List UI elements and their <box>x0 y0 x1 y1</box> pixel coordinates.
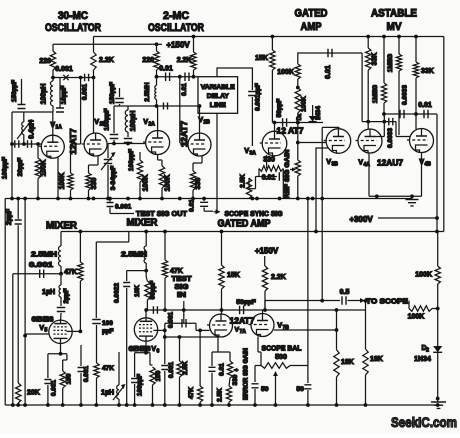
svg-text:100µµF: 100µµF <box>2 157 9 179</box>
svg-text:100µH: 100µH <box>41 84 48 105</box>
capacitor 50 (left) <box>252 384 259 388</box>
capacitor 100µµF (tank) <box>15 140 19 148</box>
pot SCOPE BAL <box>260 352 262 366</box>
trimmer capacitor 3-34µµF <box>107 144 109 159</box>
resistor 20K <box>16 383 21 403</box>
svg-text:15K: 15K <box>255 55 268 62</box>
wire +150V top bus <box>94 36 444 38</box>
svg-text:1µH: 1µH <box>42 289 55 296</box>
resistor 1MEG (grid V4A) <box>397 35 401 39</box>
resistor 2.5K (V7A cathode ret) <box>179 337 181 361</box>
wire V2A grid line <box>108 143 146 145</box>
svg-text:2.5K: 2.5K <box>182 361 189 375</box>
tube V1B <box>84 133 107 156</box>
capacitor 2µµF (left rail) <box>17 199 19 219</box>
capacitor 0.001 (V5 cathode) <box>47 354 49 378</box>
capacitor 10µµF <box>59 78 61 109</box>
svg-text:REF SIG GAIN: REF SIG GAIN <box>284 149 291 198</box>
wire V6 plate <box>145 310 147 318</box>
wire MV trigger feed <box>361 53 363 122</box>
tube V3B <box>326 129 351 154</box>
wire oscillator bottom line <box>5 198 412 200</box>
capacitor 0.001µµF <box>248 92 257 96</box>
wire V6-V7A coupling riser <box>164 323 166 330</box>
wire V3B plate to scope pick <box>338 126 340 129</box>
wire V1A plate <box>52 112 54 135</box>
svg-text:IN34: IN34 <box>315 106 322 120</box>
inductor 2.5MH (mixer1) <box>60 232 62 247</box>
svg-text:30-MC: 30-MC <box>58 10 88 22</box>
svg-text:100µµF: 100µµF <box>128 149 135 171</box>
pot wiper scope bal drop <box>275 380 277 405</box>
capacitor 0.01 (to V3B) <box>328 49 332 58</box>
svg-text:50: 50 <box>261 386 269 393</box>
node +150V tap <box>155 42 159 46</box>
svg-text:GATED: GATED <box>295 8 328 20</box>
svg-text:330: 330 <box>263 157 275 164</box>
capacitor 0.01 (scope sync) <box>202 197 206 201</box>
wire test sig in drop <box>183 301 185 323</box>
svg-text:50µµF: 50µµF <box>276 99 283 118</box>
svg-text:3-34µµF: 3-34µµF <box>110 166 117 190</box>
svg-text:OSCILLATOR: OSCILLATOR <box>148 22 204 34</box>
svg-text:0.01: 0.01 <box>418 102 432 109</box>
resistor 1MEG (grid V4B) <box>382 35 386 39</box>
wire V7B plate lead <box>262 310 264 314</box>
wire 2-MC feedback row <box>157 76 199 78</box>
resistor 15K (V7A plate) <box>221 232 223 266</box>
tube V4A <box>358 129 382 153</box>
svg-text:2.2K: 2.2K <box>99 57 114 64</box>
svg-text:0.01: 0.01 <box>181 83 188 96</box>
svg-text:0.5: 0.5 <box>340 289 350 296</box>
svg-text:100µH: 100µH <box>130 111 137 132</box>
wire V6 cathode row <box>135 352 150 354</box>
svg-text:6BE6: 6BE6 <box>32 314 54 323</box>
capacitor 100µµF (V5 out) <box>92 320 101 324</box>
resistor 2.5K (V3A cathode) <box>256 176 260 178</box>
resistor 100K (gated amp) <box>295 64 300 79</box>
resistor 330 (V1B cathode) <box>97 156 99 165</box>
svg-text:5: 5 <box>45 328 48 334</box>
pot 330 ERROR SIG GAIN <box>218 351 230 353</box>
svg-text:10K: 10K <box>134 285 141 297</box>
resistor 2.2K (2-MC) <box>192 35 196 39</box>
svg-text:18K: 18K <box>341 359 354 366</box>
resistor 33K (V4A plate) <box>366 35 370 39</box>
capacitor 100µµF (2-MC grid) <box>113 106 115 133</box>
svg-text:0.01: 0.01 <box>159 66 173 73</box>
resistor 100K (V1 cathode) <box>71 143 81 145</box>
tube V5 6BE6 <box>49 320 72 343</box>
wire far left rail 2 <box>24 199 26 406</box>
wire scope sync arrow <box>204 210 213 212</box>
svg-text:GATED AMP: GATED AMP <box>218 219 271 230</box>
svg-text:SCOPE BAL: SCOPE BAL <box>262 346 303 353</box>
svg-text:20µµF: 20µµF <box>17 158 24 177</box>
svg-text:4B: 4B <box>425 162 432 168</box>
svg-text:1N34: 1N34 <box>414 356 431 363</box>
svg-text:+150V: +150V <box>255 247 279 256</box>
label TO SCOPE <box>348 300 358 302</box>
inductor 1µH (mixer1) <box>60 274 62 285</box>
svg-text:0.001: 0.001 <box>29 262 53 269</box>
svg-text:330: 330 <box>91 178 98 190</box>
svg-text:MIXER: MIXER <box>46 221 78 232</box>
svg-text:2.5MH: 2.5MH <box>121 252 147 259</box>
capacitor 150µµF <box>21 79 23 105</box>
svg-text:0.001: 0.001 <box>55 66 73 73</box>
svg-text:0.0033: 0.0033 <box>402 85 409 105</box>
svg-text:AMP: AMP <box>301 21 322 33</box>
svg-text:100K: 100K <box>408 314 425 321</box>
svg-text:100K: 100K <box>165 175 172 192</box>
wire MV out to rail <box>436 114 438 232</box>
wire left tank rail <box>11 144 13 199</box>
svg-text:TO SCOPE: TO SCOPE <box>366 298 408 305</box>
svg-text:6: 6 <box>157 349 160 355</box>
svg-text:SeekIC.com: SeekIC.com <box>391 415 457 430</box>
svg-text:18K: 18K <box>370 356 383 363</box>
wire delay line bottom <box>216 113 218 211</box>
resistor 220 (2-MC) <box>156 44 158 51</box>
svg-text:MIXER: MIXER <box>127 218 159 229</box>
wire delay line top to 0.001uuF <box>217 68 252 90</box>
label TEST SIG OUT <box>128 213 134 215</box>
svg-text:220: 220 <box>142 57 154 64</box>
wire tank left drop <box>11 112 13 144</box>
svg-text:15K: 15K <box>227 272 240 279</box>
tube V2A <box>146 131 170 155</box>
svg-text:100µµF: 100µµF <box>104 108 111 130</box>
svg-text:100K: 100K <box>415 272 432 279</box>
svg-text:0.001: 0.001 <box>51 379 58 396</box>
resistor 100K (to grid) <box>296 86 300 90</box>
svg-text:0.001: 0.001 <box>168 311 175 328</box>
wire V2B plate <box>199 106 201 133</box>
ground (astable) <box>411 196 413 198</box>
wire mixer1 left rail <box>12 274 14 405</box>
svg-text:0.001µµF: 0.001µµF <box>255 83 262 111</box>
svg-text:100K: 100K <box>301 96 308 112</box>
svg-text:47K: 47K <box>102 365 114 372</box>
svg-text:1µH: 1µH <box>101 390 114 397</box>
resistor 330 (V2B cathode) <box>201 156 203 163</box>
svg-text:100K: 100K <box>59 173 66 190</box>
wire V7A grid column <box>199 330 201 372</box>
svg-text:0.001: 0.001 <box>83 365 90 382</box>
svg-text:500: 500 <box>275 354 287 361</box>
svg-text:MV: MV <box>387 21 403 33</box>
tube V2B <box>188 133 211 156</box>
inductor 2.5MH (2-MC) <box>156 77 158 86</box>
svg-text:2B: 2B <box>204 120 211 126</box>
resistor 2.2K (V7B) <box>262 266 267 291</box>
wire bottom ground bus <box>5 404 438 406</box>
svg-text:2.5K: 2.5K <box>240 174 247 188</box>
resistor 2.5K (below pot) <box>229 378 230 386</box>
wire V7A plate lead <box>221 310 223 315</box>
svg-text:DELAY: DELAY <box>207 93 229 100</box>
capacitor 50µµF <box>283 118 287 127</box>
svg-text:ASTABLE: ASTABLE <box>371 8 417 20</box>
wire V3B grid <box>298 142 326 144</box>
resistor 47K (bottom) <box>199 372 201 386</box>
svg-text:220: 220 <box>39 58 51 65</box>
svg-text:0.01: 0.01 <box>188 199 195 212</box>
svg-text:50: 50 <box>296 386 304 393</box>
svg-text:2µµF: 2µµF <box>6 208 13 225</box>
capacitor 0.001 (mixer1 b) <box>80 345 82 366</box>
capacitor 0.001 series (30-MC) <box>85 74 89 82</box>
wire 30-MC tank top <box>12 111 53 113</box>
svg-text:2µµF: 2µµF <box>63 288 70 303</box>
capacitor 0.001 (V6 out coupling) <box>165 322 196 324</box>
resistor 100K (V2A cathode) <box>157 155 159 161</box>
svg-text:2.2K: 2.2K <box>271 274 286 281</box>
svg-text:7A: 7A <box>240 329 247 335</box>
wire V5 cathode row <box>48 353 67 355</box>
wire V7B grid right <box>274 329 337 331</box>
svg-text:SCOPE SYNC SIG: SCOPE SYNC SIG <box>225 211 284 218</box>
svg-text:12AU7: 12AU7 <box>377 158 404 167</box>
wire V3B cathode <box>316 148 329 232</box>
diode D2 1N34 <box>437 309 439 347</box>
wire V2A plate <box>157 106 159 131</box>
capacitor series on tank line <box>164 103 168 110</box>
tube V7A <box>210 314 233 337</box>
tube V4B <box>410 129 434 153</box>
capacitor 0.0022 <box>144 269 148 273</box>
svg-text:µµF: µµF <box>102 328 113 335</box>
capacitor 0.5 <box>342 296 346 305</box>
astable cross line <box>384 113 437 115</box>
ground (main) <box>437 399 439 402</box>
wire V7 plate row <box>222 309 366 311</box>
svg-text:0.001: 0.001 <box>115 204 132 211</box>
capacitor 0.001 (to test out) <box>108 197 112 201</box>
resistor 2.2K (30-MC) <box>93 37 95 53</box>
svg-text:150µµF: 150µµF <box>109 82 116 104</box>
svg-text:0.001: 0.001 <box>82 83 89 100</box>
svg-text:2.2K: 2.2K <box>177 57 192 64</box>
svg-text:2.5MH: 2.5MH <box>31 252 57 259</box>
resistor 100K (V2A grid ret) <box>139 152 141 160</box>
svg-text:VARIABLE: VARIABLE <box>201 84 235 91</box>
tube V7B <box>251 314 274 337</box>
wire 30-MC feedback row <box>53 77 94 79</box>
capacitor 0.001 (mixer1 in) <box>13 273 61 275</box>
resistor 150 (V5) <box>66 354 68 360</box>
resistor 150 (V6) <box>149 353 151 365</box>
svg-text:+150V: +150V <box>166 41 190 50</box>
svg-text:0.0022: 0.0022 <box>114 283 121 303</box>
wire V6 output lead <box>154 329 165 331</box>
inductor 2.5MH (mixer2) <box>145 232 147 247</box>
resistor 10K <box>145 281 150 300</box>
capacitor 150µµF (2-MC) <box>119 88 121 97</box>
svg-text:+300V: +300V <box>349 215 373 224</box>
wire V1A cathode <box>57 157 59 199</box>
resistor 18K (1) <box>336 310 338 350</box>
resistor 220 (30-MC plate) <box>52 44 54 51</box>
resistor 33K (V4B plate) <box>414 35 418 39</box>
svg-text:150: 150 <box>66 373 73 384</box>
resistor 47K (mixer1) <box>79 232 81 263</box>
inductor 1µH (bottom) <box>118 352 120 385</box>
resistor 100K horizontal (scope) <box>408 301 410 309</box>
svg-text:100: 100 <box>102 320 113 327</box>
capacitor 0.01 (MV out) <box>424 110 428 119</box>
svg-text:50µµF: 50µµF <box>236 299 256 306</box>
svg-text:47K: 47K <box>188 387 195 399</box>
svg-text:150: 150 <box>155 370 162 381</box>
svg-text:10µµF: 10µµF <box>61 86 68 105</box>
delay line box <box>198 77 238 114</box>
svg-text:TEST: TEST <box>172 276 193 283</box>
svg-text:2.5MH: 2.5MH <box>144 82 151 101</box>
svg-text:OSCILLATOR: OSCILLATOR <box>45 22 101 34</box>
svg-text:330: 330 <box>232 374 239 385</box>
capacitor 100µµF (V6 cathode) <box>134 353 136 377</box>
svg-text:IN: IN <box>177 292 186 299</box>
svg-text:47K: 47K <box>64 269 77 276</box>
svg-text:2-MC: 2-MC <box>163 10 189 22</box>
wire V5 signal input <box>23 334 27 338</box>
resistor 47K (mixer2) <box>164 232 166 261</box>
svg-text:0.001: 0.001 <box>168 361 175 378</box>
V3A cathode network <box>266 155 268 169</box>
svg-text:100K: 100K <box>277 69 294 76</box>
svg-text:D₁: D₁ <box>297 113 303 120</box>
svg-text:33K: 33K <box>372 53 379 66</box>
svg-text:0.01: 0.01 <box>262 174 276 181</box>
wire V6 plate row <box>146 309 221 311</box>
wire right rail lower <box>437 232 439 267</box>
resistor 100K (V1A grid) <box>37 144 39 158</box>
svg-text:12 AT7: 12 AT7 <box>277 127 305 136</box>
wire +150V sub bus <box>53 43 157 45</box>
capacitor 0.0033 (cross 2) <box>362 121 396 123</box>
wire scope line joins rail <box>436 307 440 311</box>
trimmer 0.001 (30-MC) <box>63 75 68 80</box>
capacitor 20µµF <box>28 140 32 148</box>
tube V1A <box>41 135 64 158</box>
wire V1B plate <box>93 78 95 134</box>
wire pot column from top <box>307 199 309 366</box>
capacitor 2µµF (V5 grid) <box>57 308 66 312</box>
resistor 18K (2) <box>365 301 367 349</box>
svg-text:100µµF: 100µµF <box>137 374 144 396</box>
capacitor 100µµF (below coil) <box>124 139 133 143</box>
svg-text:1A: 1A <box>56 125 63 131</box>
capacitor 0.0033 (cross 1) <box>400 110 404 119</box>
diode D1 IN34 <box>312 105 314 116</box>
svg-text:0.0033: 0.0033 <box>387 128 394 148</box>
capacitor 0.01 series <box>166 72 170 81</box>
wire V3A plate lead <box>274 123 276 132</box>
svg-text:1MEG: 1MEG <box>387 54 394 72</box>
wire grid feed <box>297 123 299 143</box>
svg-text:LINE: LINE <box>210 102 226 109</box>
svg-text:150µµF: 150µµF <box>11 80 18 102</box>
svg-text:20K: 20K <box>27 390 40 397</box>
capacitor 50 (right) <box>304 385 311 389</box>
capacitor 50µµF (V7) <box>240 306 244 315</box>
capacitor 50µµF (mixer2) <box>153 306 157 314</box>
svg-text:47K: 47K <box>170 268 183 275</box>
svg-text:1MEG: 1MEG <box>372 85 379 103</box>
svg-text:ERROR SIG GAIN: ERROR SIG GAIN <box>243 348 250 400</box>
svg-text:0.4µH: 0.4µH <box>29 120 36 139</box>
tube V3A <box>262 131 287 156</box>
wire scope out <box>265 300 340 302</box>
wire mixer1 right column <box>96 241 129 243</box>
svg-text:2: 2 <box>426 348 429 354</box>
inductor 100µH (2-MC) <box>127 106 129 110</box>
svg-text:0.01: 0.01 <box>325 65 332 79</box>
wire scope sync drop <box>321 127 323 300</box>
svg-text:2A: 2A <box>149 122 156 128</box>
capacitor 0.001 (V6 b) <box>164 330 166 364</box>
svg-text:3A: 3A <box>250 151 257 157</box>
inductor 100µH <box>52 78 54 82</box>
svg-text:2.5K: 2.5K <box>217 388 224 402</box>
svg-text:33K: 33K <box>421 68 434 75</box>
svg-text:50µµF: 50µµF <box>150 281 157 300</box>
svg-text:100K: 100K <box>41 160 48 177</box>
resistor 15K <box>271 35 275 39</box>
svg-text:3B: 3B <box>332 162 339 168</box>
pot REF SIG GAIN <box>295 160 300 176</box>
wire V3A plate to 0.01 <box>298 53 362 64</box>
resistor 47K (mixer1 out) <box>94 363 99 378</box>
wire V1A grid line <box>12 143 42 145</box>
wire 2-MC tank top <box>114 105 200 107</box>
svg-text:12AT7: 12AT7 <box>230 317 256 326</box>
svg-text:0.01: 0.01 <box>219 363 226 376</box>
wire V2B grid <box>179 77 181 143</box>
wire right rail from bus <box>443 37 445 232</box>
wire mixer supply line <box>61 231 444 233</box>
wire V4 cathodes <box>368 153 370 197</box>
resistor 100K (right rail) <box>435 266 440 284</box>
wire V7A cathode row <box>165 336 218 338</box>
svg-text:100K: 100K <box>143 175 150 192</box>
wire V3A grid row <box>272 122 323 124</box>
capacitor 0.01 (2nd) <box>185 72 189 81</box>
inductor 0.4µH variable <box>23 112 25 122</box>
tube V6 6BE6 <box>134 318 157 341</box>
svg-text:SIG: SIG <box>175 284 190 291</box>
capacitor 0.01 (V7A) <box>212 351 218 353</box>
svg-text:330: 330 <box>195 178 202 190</box>
